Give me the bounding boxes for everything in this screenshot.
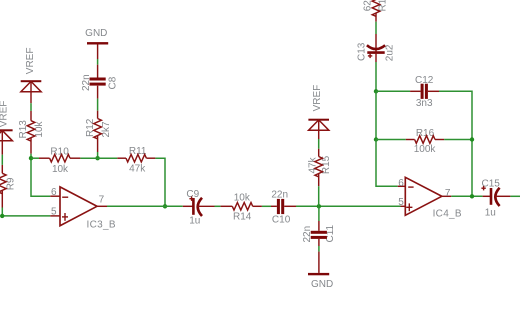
supply VREF (R13 column) [21, 48, 42, 104]
wire C12 to right rail [439, 91, 472, 196]
svg-text:VREF: VREF [25, 48, 36, 75]
svg-text:5: 5 [51, 207, 57, 218]
svg-text:C10: C10 [272, 214, 291, 225]
svg-text:R12: R12 [85, 118, 96, 137]
wire IC3 pin5 net [2, 215, 50, 217]
junction node pin5 [0, 214, 4, 218]
resistor R11 47k [117, 146, 155, 174]
wire IC4 output [451, 195, 482, 197]
svg-text:C13: C13 [356, 42, 367, 61]
junction node B [95, 156, 99, 160]
wire C11 to GND [318, 246, 320, 252]
ground GND (top) [85, 28, 108, 59]
svg-text:6: 6 [51, 187, 57, 198]
wire R12 to node B [97, 152, 99, 158]
capacitor C15 1u [481, 178, 510, 218]
wire R16 to right rail [444, 139, 472, 141]
junction node C [317, 204, 321, 208]
junction node E [374, 137, 378, 141]
wire R14 to C10 [262, 205, 271, 207]
resistor R15 47k [307, 149, 332, 186]
wire R15 to node C [318, 186, 320, 206]
resistor R17 620 (cut at top) [363, 0, 389, 22]
wire R9 to node [1, 208, 3, 217]
svg-text:1u: 1u [485, 207, 496, 218]
svg-text:R14: R14 [233, 212, 252, 223]
wire rail to IC4 pin6 [376, 140, 398, 187]
capacitor C8 22n [81, 65, 119, 99]
wire node A to R10 [31, 157, 39, 159]
wire node A down to IC3 pin6 [31, 158, 50, 196]
ground GND (bottom) [308, 252, 333, 290]
svg-text:6: 6 [398, 178, 404, 189]
wire R11 feedback down to output node [155, 158, 165, 206]
svg-text:2k7: 2k7 [101, 121, 112, 138]
junction output node IC3 [163, 204, 167, 208]
svg-text:R17: R17 [377, 0, 388, 12]
svg-text:2u2: 2u2 [384, 44, 395, 61]
svg-text:7: 7 [445, 188, 451, 199]
capacitor C11 22n [302, 221, 336, 246]
wire R10 to node B [80, 157, 117, 159]
capacitor C12 3n3 [410, 75, 439, 109]
svg-text:7: 7 [99, 195, 105, 206]
resistor R9 [0, 165, 17, 208]
svg-text:IC3_B: IC3_B [87, 219, 116, 230]
svg-text:R13: R13 [18, 120, 29, 139]
resistor R10 10k [39, 146, 80, 175]
wire IC3 output to C9 [107, 205, 183, 207]
op-amp IC3_B [50, 187, 116, 230]
wire C15 to right edge [510, 195, 520, 197]
wire left feedback rail [375, 91, 377, 139]
wire C8 to R12 [97, 99, 99, 111]
svg-text:GND: GND [85, 28, 107, 39]
svg-text:R10: R10 [50, 146, 69, 157]
wire node E to R16 [376, 139, 406, 141]
svg-text:C12: C12 [415, 75, 434, 86]
svg-text:1u: 1u [189, 215, 200, 226]
svg-text:22n: 22n [302, 226, 313, 243]
wire node C to C11 [318, 206, 320, 221]
junction node D [374, 89, 378, 93]
svg-text:47k: 47k [129, 163, 146, 174]
wire VREF to R15 [318, 139, 320, 149]
svg-text:VREF: VREF [312, 85, 323, 112]
wire GND to C8 [97, 59, 99, 65]
svg-text:C8: C8 [108, 76, 119, 89]
svg-text:22n: 22n [271, 189, 288, 200]
wire R13 column [30, 103, 32, 111]
svg-text:5: 5 [398, 197, 404, 208]
resistor R14 10k [221, 192, 262, 222]
resistor R16 100k [406, 128, 444, 155]
svg-text:VREF: VREF [0, 101, 9, 128]
capacitor C9 1u [183, 189, 215, 226]
supply VREF (left, R9 column) [0, 101, 13, 155]
junction node A [29, 156, 33, 160]
op-amp IC4_B [398, 177, 462, 219]
svg-text:10k: 10k [234, 192, 251, 203]
wire C10 to IC4 pin5 [296, 205, 401, 207]
svg-text:47k: 47k [307, 156, 318, 173]
wire R13 to node A [30, 154, 32, 159]
svg-text:10k: 10k [52, 164, 69, 175]
junction node G [470, 194, 474, 198]
wire R17 to C13 [375, 22, 377, 34]
wire C13 to node D [375, 62, 377, 91]
wire C9 to R14 [215, 205, 221, 207]
wire R9 column [1, 155, 3, 165]
capacitor C13 2u2 [356, 34, 395, 62]
svg-text:IC4_B: IC4_B [433, 209, 462, 220]
svg-text:3n3: 3n3 [416, 98, 433, 109]
resistor R13 [18, 111, 45, 154]
svg-text:100k: 100k [414, 144, 437, 155]
wire node D to C12 [376, 90, 410, 92]
supply VREF (R15 column) [308, 85, 329, 139]
junction node F [470, 137, 474, 141]
resistor R12 [85, 111, 112, 152]
svg-text:GND: GND [311, 279, 333, 290]
capacitor C10 22n [271, 189, 296, 225]
